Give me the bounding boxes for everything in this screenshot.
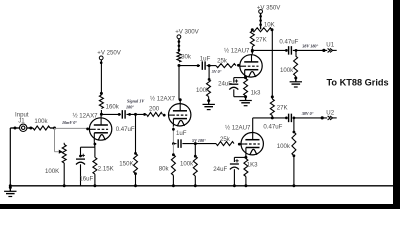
svg-text:+V 250V: +V 250V xyxy=(97,49,121,56)
tube V1 half 12AX7 first stage xyxy=(89,118,111,140)
wire V1 cathode down xyxy=(93,142,96,148)
resistor 25k lower xyxy=(216,142,234,146)
capacitor 1uF lower coupling xyxy=(177,139,179,148)
svg-text:J1: J1 xyxy=(18,118,25,125)
wire node A to V1 grid xyxy=(55,127,90,129)
svg-text:1uF: 1uF xyxy=(200,55,211,62)
resistor 100k upper return xyxy=(208,66,210,80)
resistor 150K grid leak xyxy=(135,114,137,153)
capacitor 24uF lower bypass xyxy=(235,160,238,162)
svg-text:Signal 1V: Signal 1V xyxy=(127,98,145,103)
svg-text:100k: 100k xyxy=(196,87,210,94)
wire plate node to 1uF xyxy=(179,65,200,67)
wire V1 plate to coupling cap xyxy=(101,113,120,115)
wire plate row to 27K xyxy=(253,117,287,119)
wire cathode to lower 1uF xyxy=(173,143,176,145)
svg-text:U1: U1 xyxy=(326,41,334,48)
svg-text:100K: 100K xyxy=(45,168,59,175)
svg-text:38V 180°: 38V 180° xyxy=(301,44,318,49)
svg-text:25k: 25k xyxy=(217,57,228,64)
svg-text:2.15K: 2.15K xyxy=(98,166,114,173)
wire left bus xyxy=(9,128,11,186)
ground main xyxy=(9,186,12,189)
resistor 25k upper xyxy=(216,64,236,68)
capacitor 1uF upper coupling xyxy=(201,61,203,70)
power terminal +V 350V xyxy=(259,10,263,14)
ground V3 cathode xyxy=(244,95,247,98)
resistor 27K lower plate load xyxy=(271,95,274,98)
svg-text:5V 0°: 5V 0° xyxy=(212,69,222,74)
svg-text:1K3: 1K3 xyxy=(247,162,258,169)
svg-text:U2: U2 xyxy=(326,109,334,116)
svg-text:24uF: 24uF xyxy=(218,81,232,88)
svg-text:27K: 27K xyxy=(256,36,267,43)
resistor 200 grid stopper xyxy=(147,112,163,116)
resistor 160k plate load xyxy=(100,110,102,114)
svg-text:1uF: 1uF xyxy=(176,130,187,137)
capacitor 24uF upper bypass xyxy=(235,80,238,82)
potentiometer VR1 100K body xyxy=(63,143,65,145)
svg-text:100k: 100k xyxy=(280,67,294,74)
capacitor C1 0.47uF coupling xyxy=(121,110,123,119)
resistor 100k lower return xyxy=(194,144,196,157)
tube V4 half 12AU7 lower driver xyxy=(241,133,263,155)
resistor 27K upper plate load xyxy=(251,47,253,51)
resistor 10K supply dropper xyxy=(252,28,272,32)
svg-text:100k: 100k xyxy=(180,160,194,167)
svg-text:27K: 27K xyxy=(277,104,288,111)
photo border right bar xyxy=(393,0,400,209)
wire cap to U2 xyxy=(293,117,327,119)
resistor 80k cathode load xyxy=(172,144,174,155)
wire node A down to pot wiper xyxy=(54,128,56,152)
wire 1uF to node C xyxy=(207,65,217,67)
svg-text:10mV 0°: 10mV 0° xyxy=(62,120,77,125)
resistor 1K3 lower cathode xyxy=(244,159,248,177)
svg-text:1k3: 1k3 xyxy=(251,89,261,96)
ground upper return xyxy=(207,99,210,102)
wire V4 cathode node xyxy=(245,155,247,157)
tube V3 half 12AU7 upper driver xyxy=(240,55,262,77)
svg-text:½ 12AX7: ½ 12AX7 xyxy=(150,96,176,103)
svg-text:24uF: 24uF xyxy=(213,166,227,173)
svg-text:16uF: 16uF xyxy=(79,176,93,183)
wire 1uF to node D xyxy=(182,143,216,145)
wire jack right lead xyxy=(27,127,33,129)
wire V2 cathode down xyxy=(172,126,174,143)
wire cap to node B xyxy=(127,113,147,115)
wire V1 plate up xyxy=(100,114,102,117)
wire cap to U1 xyxy=(293,49,327,51)
wire 160k to +250V xyxy=(100,60,102,93)
svg-text:To KT88 Grids: To KT88 Grids xyxy=(327,78,389,88)
potentiometer VR1 100K wiper arrow xyxy=(59,150,63,154)
resistor 2.15K cathode xyxy=(94,147,96,157)
wire to V2 grid xyxy=(163,114,166,117)
wire V3 plate up xyxy=(251,50,253,54)
wire V3 cathode node xyxy=(244,76,247,78)
wire jack left lead xyxy=(10,127,19,129)
svg-text:38V 0°: 38V 0° xyxy=(301,111,314,116)
svg-text:+V 350V: +V 350V xyxy=(257,5,281,12)
svg-text:80k: 80k xyxy=(159,165,170,172)
svg-text:25k: 25k xyxy=(220,136,231,143)
wire V4 plate up xyxy=(252,118,254,132)
svg-text:0.47uF: 0.47uF xyxy=(116,126,135,133)
resistor 100k U2 grid leak xyxy=(293,118,295,132)
node A junction xyxy=(53,127,56,130)
svg-text:0.47uF: 0.47uF xyxy=(279,38,298,45)
resistor 1k3 upper cathode xyxy=(244,79,248,96)
wire cathode node left to 16uF xyxy=(81,146,95,148)
resistor 80k plate load xyxy=(177,52,181,62)
svg-text:180°: 180° xyxy=(126,104,134,109)
svg-text:5V 180°: 5V 180° xyxy=(192,138,206,143)
ground U1 load xyxy=(294,77,297,80)
svg-text:150K: 150K xyxy=(119,161,133,168)
svg-text:½ 12AU7: ½ 12AU7 xyxy=(225,125,251,132)
svg-text:10K: 10K xyxy=(264,22,275,29)
wire ground bus xyxy=(10,185,393,187)
svg-text:½ 12AU7: ½ 12AU7 xyxy=(224,47,250,54)
wire to 24uF lower xyxy=(234,156,246,158)
svg-text:100k: 100k xyxy=(277,143,291,150)
svg-text:½ 12AX7: ½ 12AX7 xyxy=(73,112,99,119)
resistor 100k U1 grid leak xyxy=(295,50,297,56)
wire to node A xyxy=(50,127,56,129)
capacitor 16uF cathode bypass xyxy=(82,154,85,156)
svg-text:0.47uF: 0.47uF xyxy=(263,123,282,130)
svg-text:80k: 80k xyxy=(181,53,192,60)
wire V3 plate node to output cap xyxy=(252,49,286,51)
power terminal +V 300V xyxy=(177,35,181,39)
photo border bottom bar xyxy=(0,204,400,209)
wire rail 10K to lower 27K xyxy=(271,30,273,97)
wire to 24uF upper xyxy=(234,77,246,79)
connector J1 input jack xyxy=(20,124,27,131)
svg-text:160k: 160k xyxy=(106,103,120,110)
capacitor 0.47uF lower output xyxy=(288,114,290,123)
wire V2 plate up xyxy=(179,100,181,103)
capacitor 0.47uF upper output xyxy=(288,46,290,55)
svg-text:+V 300V: +V 300V xyxy=(175,28,199,35)
power terminal +V 250V xyxy=(99,56,103,60)
tube V2 half 12AX7 phase splitter xyxy=(169,104,191,126)
svg-text:200: 200 xyxy=(149,106,160,113)
resistor R input 100k xyxy=(33,126,50,130)
svg-text:100k: 100k xyxy=(34,118,48,125)
